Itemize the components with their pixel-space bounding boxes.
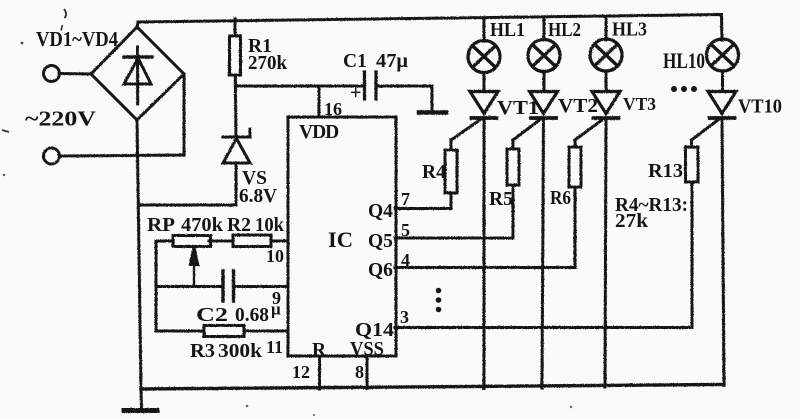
svg-text:IC: IC	[328, 227, 353, 252]
svg-text:47μ: 47μ	[376, 51, 408, 72]
svg-text:12: 12	[292, 362, 310, 382]
svg-text:HL1: HL1	[490, 20, 525, 41]
svg-text:HL10: HL10	[663, 48, 705, 73]
svg-text:VT2: VT2	[558, 96, 598, 117]
svg-text:Q4: Q4	[368, 201, 393, 222]
svg-text:VSS: VSS	[350, 339, 384, 360]
svg-text:7: 7	[401, 189, 410, 209]
svg-text:8: 8	[355, 362, 364, 382]
svg-text:HL3: HL3	[612, 20, 647, 41]
svg-text:0.68: 0.68	[235, 305, 269, 326]
svg-text:~220V: ~220V	[25, 107, 96, 131]
svg-text:10k: 10k	[255, 215, 284, 236]
svg-text:Q5: Q5	[368, 231, 393, 252]
svg-text:VT1: VT1	[497, 98, 539, 119]
svg-text:R4: R4	[422, 162, 446, 183]
svg-text:6.8V: 6.8V	[239, 186, 277, 207]
svg-text:4: 4	[401, 250, 410, 270]
svg-text:470k: 470k	[181, 215, 223, 236]
svg-text:5: 5	[401, 220, 410, 240]
svg-text:R2: R2	[227, 215, 251, 236]
svg-text:27k: 27k	[615, 211, 648, 232]
svg-text:Q6: Q6	[368, 260, 393, 281]
svg-text:Q14: Q14	[355, 320, 394, 341]
svg-text:R3: R3	[190, 341, 215, 362]
svg-text:R5: R5	[489, 189, 513, 210]
svg-text:11: 11	[266, 337, 283, 357]
svg-text:RP: RP	[147, 215, 175, 236]
svg-text:C2: C2	[196, 305, 228, 326]
svg-text:VD1~VD4: VD1~VD4	[36, 27, 118, 51]
svg-text:9: 9	[272, 288, 281, 308]
svg-text:VDD: VDD	[299, 122, 339, 143]
svg-text:HL2: HL2	[548, 20, 581, 41]
svg-text:VT10: VT10	[738, 97, 782, 118]
svg-text:16: 16	[324, 99, 342, 119]
svg-text:300k: 300k	[218, 341, 262, 362]
svg-text:VT3: VT3	[623, 94, 656, 114]
svg-text:3: 3	[400, 307, 409, 327]
svg-text:+: +	[350, 82, 361, 104]
svg-text:C1: C1	[343, 51, 367, 72]
svg-text:R: R	[312, 340, 327, 361]
svg-text:R6: R6	[550, 188, 571, 209]
svg-text:270k: 270k	[248, 53, 287, 74]
svg-text:10: 10	[266, 246, 284, 266]
svg-text:R13: R13	[648, 161, 683, 182]
